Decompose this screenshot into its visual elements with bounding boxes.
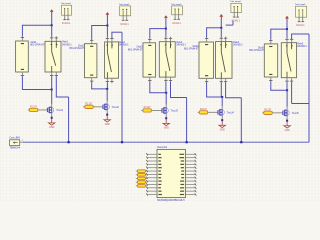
pin 3 of K2B: [106, 37, 109, 42]
wire K4B pin 6 to output net: [225, 83, 241, 142]
pin 9 of U1 (left): [146, 180, 162, 182]
wire Q1 source to GND: [51, 113, 53, 119]
pin 5 of K3B: [164, 77, 167, 82]
pin 3 of K1B: [50, 36, 53, 41]
junction node drain3: [165, 92, 167, 94]
junction node VCC1: [51, 24, 53, 26]
designator label of K1B: [62, 41, 72, 47]
wire K5B pin 5 to drain node: [286, 82, 288, 90]
value label 34.341.1 of E1: [62, 22, 71, 25]
pin 6 of K1B: [55, 72, 58, 77]
wire drain node to Q1 drain: [51, 90, 53, 104]
pin 3 of K3B: [164, 37, 167, 42]
connector E3 Tula_lamp3: [171, 4, 183, 15]
pin 4 of K1B: [55, 36, 58, 41]
pin 6 of K5B: [290, 78, 293, 83]
svg-text:34.341.1: 34.341.1: [62, 22, 71, 25]
pin 13 of U1 (left): [146, 193, 162, 195]
pin 2 of E5: [301, 11, 304, 22]
connector E2 Tula_lamp2: [119, 4, 131, 16]
junction node VCC3: [165, 28, 167, 30]
wire VCC3 to coil K3 pin 1: [150, 28, 166, 38]
designator label of K4B: [233, 41, 243, 47]
resistor R10: [136, 185, 147, 188]
pin 3 of U1 (left): [146, 160, 161, 162]
value label 34.341.1 of E2: [120, 23, 129, 26]
wire VCC4 to contact K4 pin 3: [220, 28, 222, 37]
pin 1 of K5A: [269, 39, 272, 44]
svg-text:240-605-1: 240-605-1: [62, 44, 72, 46]
relay contact K5B: [281, 43, 296, 78]
svg-text:240-605-1: 240-605-1: [233, 45, 243, 47]
wire Q1 drain lead: [51, 104, 53, 107]
pin 2 of K1A: [21, 72, 24, 77]
svg-text:MC9S08QG8CPB16-MLH: MC9S08QG8CPB16-MLH: [157, 199, 185, 202]
svg-text:R5 107: R5 107: [264, 109, 272, 111]
ground GND2: [104, 116, 110, 126]
wire K1B pin 5 to drain node: [51, 77, 53, 90]
wire R4 to Q4 gate: [198, 111, 218, 113]
wire Q3 drain lead: [165, 104, 167, 107]
resistor R7: [136, 173, 147, 176]
wire R5 to Q5 gate: [262, 112, 283, 114]
svg-text:Conn_BH1: Conn_BH1: [9, 137, 21, 140]
connector E1 Tula_lamp1: [61, 3, 72, 15]
pin 24 of U1 (right): [180, 187, 196, 189]
svg-text:Rele5: Rele5: [297, 42, 304, 45]
wire Q2 source to GND: [106, 109, 108, 115]
value label 34.341.1 of E3: [172, 22, 181, 25]
relay coil K3A: [143, 43, 156, 77]
wire drain node to Q2 drain: [106, 89, 108, 101]
wire VCC5 stem: [286, 20, 288, 29]
connector E5 Tula_lamp5: [295, 4, 307, 17]
designator label of K5A: [249, 46, 264, 52]
power port VCC5: [285, 16, 289, 20]
pin 10 of U1 (left): [146, 183, 161, 185]
svg-text:Diod5: Diod5: [258, 46, 265, 49]
relay contact K4B: [216, 42, 233, 79]
pin 14 of U1 (right): [180, 153, 197, 155]
svg-text:Tula_lamp2: Tula_lamp2: [119, 4, 130, 6]
junction node drain2: [106, 88, 108, 90]
ground GND3: [163, 119, 169, 129]
wire VCC1 to coil K1 pin 1: [22, 25, 51, 37]
pin 2 of U1 (left): [146, 156, 161, 158]
svg-text:DecoJA1: DecoJA1: [157, 145, 167, 149]
pin 2 of K4A: [205, 78, 208, 83]
power port VCC4: [219, 14, 223, 18]
resistor R1: [29, 106, 37, 111]
pin 5 of U1 (left): [146, 167, 162, 169]
resistor R6: [136, 170, 147, 173]
svg-text:R3 107: R3 107: [144, 107, 152, 109]
svg-text:Tula_lamp1: Tula_lamp1: [61, 3, 72, 5]
pin 2 of E4: [236, 7, 239, 17]
designator label of K2A: [70, 44, 85, 50]
wire Q4 drain lead: [221, 106, 223, 109]
wire drain node to Q4 drain: [221, 97, 223, 106]
wire K2B pin 4 to output net: [111, 32, 122, 142]
wire VCC2 to contact K2 pin 3: [106, 26, 108, 38]
svg-text:Rele3: Rele3: [176, 41, 183, 44]
wire K1A pin 2 to drain node: [22, 77, 52, 90]
pin 2 of E3: [177, 10, 180, 19]
svg-text:34.341.1: 34.341.1: [172, 22, 181, 25]
svg-text:TrunJ4: TrunJ4: [227, 111, 235, 114]
svg-text:TrunJ3: TrunJ3: [171, 110, 179, 113]
pin 21 of U1 (right): [181, 177, 196, 179]
svg-text:Diod4: Diod4: [193, 45, 200, 48]
svg-text:BK1-1PVA4-0T: BK1-1PVA4-0T: [249, 49, 264, 52]
wire Q5 drain lead: [286, 107, 288, 110]
ground GND5: [284, 122, 290, 132]
wire K5A pin 2 to drain node: [270, 82, 287, 91]
relay coil K4A: [199, 42, 214, 78]
junction node drain5: [286, 89, 288, 91]
svg-text:R1 107: R1 107: [30, 106, 38, 108]
resistor R4: [199, 109, 207, 114]
pin 25 of U1 (right): [180, 190, 196, 192]
power port VCC1: [50, 9, 54, 13]
wire VCC1 stem: [51, 13, 53, 25]
wire VCC4 stem: [220, 18, 222, 28]
wire VCC1 to contact K1 pin 3: [51, 25, 53, 37]
relay coil K2A: [85, 44, 97, 78]
IC U1 microcontroller: [157, 145, 185, 202]
pin 1 of K3A: [148, 38, 151, 43]
transistor Q1: [47, 107, 63, 113]
pin 19 of U1 (right): [181, 170, 196, 172]
resistor R9: [136, 181, 147, 184]
svg-text:34.341.1: 34.341.1: [120, 23, 129, 26]
connector X1 Conn_BH1: [9, 137, 21, 150]
pin 2 of K2A: [90, 78, 93, 83]
pin 4 of K5B: [290, 38, 293, 43]
wire K2B pin 5 to drain node: [106, 83, 108, 89]
wire Q3 source to GND: [165, 113, 167, 119]
junction node bus-K1: [68, 141, 70, 143]
wire K4B pin 5 to drain node: [220, 83, 222, 97]
designator label of K4A: [184, 45, 199, 51]
transistor Q5: [283, 110, 299, 116]
designator label of K2B: [119, 41, 129, 47]
pin 1 of K4A: [205, 37, 208, 42]
transistor Q2: [103, 104, 119, 110]
svg-text:Tula_lamp3: Tula_lamp3: [171, 4, 182, 6]
power port VCC3: [164, 15, 168, 19]
transistor Q3: [162, 107, 178, 113]
relay contact K1B: [45, 41, 61, 72]
wire K4A pin 2 to drain node: [206, 83, 222, 97]
wire drain node to Q5 drain: [286, 90, 288, 107]
pin 4 of K3B: [169, 37, 172, 42]
junction node bus-K4: [240, 141, 242, 143]
wire drain node to Q3 drain: [165, 93, 167, 105]
wire K3B pin 6 to output net: [170, 82, 187, 143]
designator label of K3B: [176, 41, 186, 47]
pin 1 of X1: [20, 140, 24, 142]
resistor R3: [143, 107, 151, 112]
pin 11 of U1 (left): [146, 187, 161, 189]
value label 34.341.1 of E5: [296, 24, 305, 27]
junction node bus-K3: [186, 141, 188, 143]
pin 22 of U1 (right): [180, 180, 196, 182]
wire K3A pin 2 to drain node: [149, 82, 166, 93]
pin 5 of K5B: [285, 78, 288, 83]
wire K1B pin 6 to output net: [56, 77, 69, 143]
pin 7 of U1 (left): [146, 173, 161, 175]
svg-text:Diod1: Diod1: [31, 41, 38, 44]
wire VCC5 to coil K5 pin 1: [271, 29, 287, 40]
value label 34.341.1 of E4: [231, 20, 240, 23]
pin 4 of U1 (left): [146, 163, 161, 165]
pin 18 of U1 (right): [181, 167, 197, 169]
pin 6 of K4B: [224, 78, 227, 83]
wire R2 to Q2 gate: [83, 106, 103, 108]
svg-text:GND: GND: [49, 126, 54, 129]
svg-text:240-605-1: 240-605-1: [297, 46, 307, 48]
wire K5B pin 6 to output net (lower): [292, 82, 309, 103]
junction node bus-K2: [121, 141, 123, 143]
svg-text:TrunJ1: TrunJ1: [56, 109, 64, 112]
svg-text:Diod2: Diod2: [78, 44, 85, 47]
designator label of K5B: [297, 42, 307, 48]
pin 1 of K1A: [21, 36, 24, 41]
connector E4 Tula_lamp4: [230, 1, 241, 12]
pin 6 of K2B: [110, 78, 113, 83]
pin 5 of K1B: [50, 72, 53, 77]
relay coil K1A: [16, 41, 29, 72]
pin 4 of K2B: [110, 37, 113, 42]
pin 17 of U1 (right): [180, 163, 196, 165]
svg-text:TrunJ5: TrunJ5: [292, 112, 300, 115]
power port VCC2: [106, 12, 110, 16]
relay contact K2B: [105, 42, 119, 78]
pin 6 of U1 (left): [146, 170, 161, 172]
junction node VCC4: [220, 27, 222, 29]
svg-text:34.341.1: 34.341.1: [296, 24, 305, 27]
svg-text:TrunJ2: TrunJ2: [112, 106, 120, 109]
resistor R8: [136, 177, 147, 180]
svg-text:BK1-1PVA4-0T: BK1-1PVA4-0T: [70, 47, 85, 50]
pin 23 of U1 (right): [181, 183, 197, 185]
wire VCC4 to coil K4 pin 1: [207, 27, 222, 37]
pin 1 of E2: [122, 10, 125, 20]
relay contact K3B: [159, 42, 175, 77]
pin 3 of K4B: [220, 37, 223, 42]
svg-text:BK1-1PVA4-0T: BK1-1PVA4-0T: [184, 48, 199, 51]
svg-text:BK1-1PVA4-0T: BK1-1PVA4-0T: [128, 48, 143, 51]
wire Q5 source to GND: [286, 115, 288, 121]
wire K3B pin 5 to drain node: [165, 82, 167, 93]
transistor Q4: [218, 109, 234, 115]
svg-text:Tula_lamp5: Tula_lamp5: [295, 4, 306, 6]
pin 16 of U1 (right): [181, 160, 197, 162]
wire R3 to Q3 gate: [141, 109, 161, 111]
pin 1 of E5: [298, 11, 301, 22]
wire R1 to Q1 gate: [28, 109, 48, 111]
pin 20 of U1 (right): [181, 173, 196, 175]
wire Q2 drain lead: [106, 101, 108, 104]
wire VCC3 to contact K3 pin 3: [165, 29, 167, 38]
svg-text:Rele4: Rele4: [233, 41, 240, 44]
svg-text:R4 107: R4 107: [200, 109, 208, 111]
pin 5 of K4B: [220, 78, 223, 83]
pin 2 of K3A: [148, 77, 151, 82]
pin 2 of E2: [125, 10, 128, 20]
wire K5B pin 4 to output net: [291, 34, 309, 142]
pin 2 of K5A: [269, 77, 272, 82]
designator label of K1A: [30, 41, 45, 47]
resistor R2: [85, 103, 93, 108]
ground GND1: [49, 119, 55, 129]
wire Q4 source to GND: [221, 115, 223, 121]
ground GND4: [219, 121, 225, 131]
designator label of K3A: [128, 46, 143, 52]
svg-text:Diod3: Diod3: [137, 46, 144, 49]
pin 15 of U1 (right): [180, 156, 197, 158]
svg-text:R2 107: R2 107: [85, 103, 93, 105]
svg-text:Rele1: Rele1: [62, 41, 69, 44]
resistor R5: [264, 109, 272, 114]
pin 1 of E4: [233, 7, 236, 17]
pin 2 of E1: [67, 10, 70, 20]
svg-text:GND: GND: [105, 123, 110, 126]
svg-text:BK1-1PVA4-0T: BK1-1PVA4-0T: [30, 44, 45, 47]
svg-text:GND: GND: [164, 127, 169, 130]
svg-text:GND: GND: [220, 128, 225, 131]
pin 12 of U1 (left): [146, 190, 161, 192]
wire output bus: [23, 141, 309, 143]
wire jog near E4: [226, 21, 233, 25]
pin 5 of K2B: [106, 78, 109, 83]
junction node VCC5: [286, 28, 288, 30]
wire VCC5 to contact K5 pin 3: [286, 29, 288, 38]
pin 1 of K2A: [90, 39, 93, 44]
pin 4 of K4B: [224, 37, 227, 42]
svg-text:240-605-1: 240-605-1: [119, 45, 129, 47]
junction node drain4: [221, 96, 223, 98]
svg-text:TBMEGA4: TBMEGA4: [9, 147, 20, 150]
pin 6 of K3B: [169, 77, 172, 82]
pin 1 of E1: [63, 10, 66, 20]
relay coil K5A: [264, 44, 277, 77]
pin 8 of U1 (left): [146, 177, 161, 179]
wire K2A pin 2 to drain node: [91, 82, 107, 89]
svg-text:Tula_lamp4: Tula_lamp4: [230, 1, 241, 3]
pin 26 of U1 (right): [180, 193, 196, 195]
wire VCC3 stem: [165, 19, 167, 28]
pin 1 of E3: [174, 10, 177, 19]
pin 1 of U1 (left): [146, 153, 161, 155]
wire VCC2 to coil K2 pin 1: [92, 25, 108, 39]
svg-text:240-605-1: 240-605-1: [176, 45, 186, 47]
svg-text:GND: GND: [285, 129, 290, 132]
junction node drain1: [51, 89, 53, 91]
junction node VCC2: [106, 25, 108, 27]
pin 3 of K5B: [285, 38, 288, 43]
wire VCC2 stem: [106, 16, 108, 26]
